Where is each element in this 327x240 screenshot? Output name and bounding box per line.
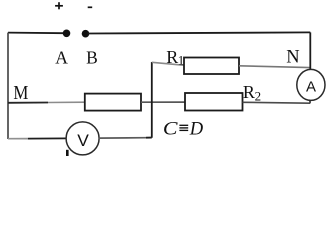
wire R1 left <box>152 62 185 65</box>
svg-text:R: R <box>166 47 178 67</box>
wire top right segment <box>88 32 311 33</box>
wire bottom right corner part <box>146 137 152 139</box>
wire M horizontal left dark part <box>8 102 48 104</box>
svg-text:V: V <box>77 131 89 150</box>
svg-text:A: A <box>306 78 316 95</box>
wire bottom left dark part <box>28 137 67 139</box>
label + <box>55 2 63 9</box>
wire top left segment <box>8 32 64 35</box>
label - <box>88 6 93 8</box>
ammeter A <box>297 69 325 100</box>
svg-text:A: A <box>55 48 68 68</box>
wire bottom left gray part <box>8 138 28 140</box>
battery terminal dot A <box>63 30 71 38</box>
svg-text:N: N <box>286 48 299 68</box>
resistor R2 <box>185 93 243 111</box>
svg-text:C: C <box>163 118 178 139</box>
wire ammeter bottom stub <box>309 100 311 103</box>
wire bottom right gray part <box>99 137 146 139</box>
resistor unlabeled on M branch <box>85 94 141 111</box>
svg-text:1: 1 <box>178 52 185 67</box>
wire R1 right <box>239 66 310 68</box>
stray mark bottom (cropped text remnant) <box>66 150 69 156</box>
svg-text:R: R <box>243 82 255 102</box>
svg-text:B: B <box>86 47 98 67</box>
wire right vertical <box>309 32 311 69</box>
voltmeter V <box>66 122 99 155</box>
svg-text:M: M <box>13 82 28 104</box>
wire M horizontal middle to R2 <box>141 101 186 103</box>
svg-text:2: 2 <box>255 88 262 103</box>
battery terminal dot B <box>82 30 90 38</box>
resistor R1 <box>184 58 239 75</box>
wire left vertical <box>7 33 9 139</box>
svg-text:D: D <box>189 118 204 139</box>
wire M horizontal left gray part <box>48 101 86 103</box>
wire R2 right <box>243 101 311 104</box>
wire node C/D vertical <box>151 62 153 138</box>
